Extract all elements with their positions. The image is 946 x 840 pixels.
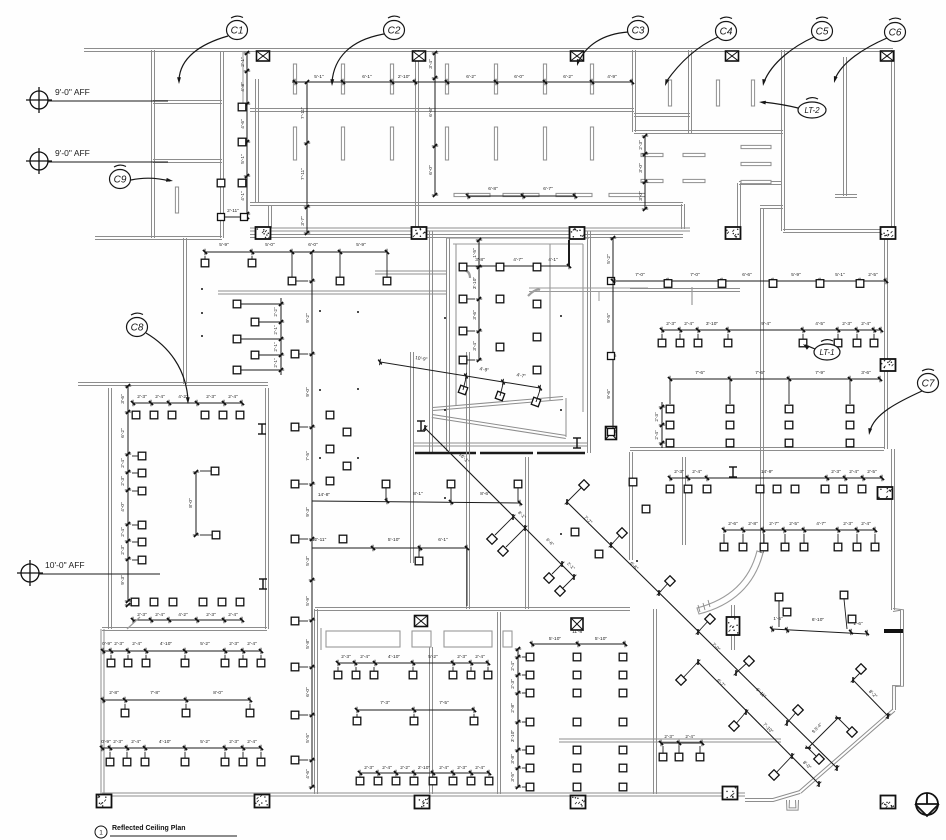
svg-text:2'-3": 2'-3" [206, 612, 216, 618]
svg-text:5'-1": 5'-1" [835, 272, 845, 278]
svg-text:2'-5": 2'-5" [789, 521, 799, 527]
dim chain vertical x307 7-11 [306, 82, 308, 233]
dim chain A y651 [103, 650, 261, 652]
svg-text:2'-2": 2'-2" [273, 307, 278, 317]
svg-text:6'-6": 6'-6" [428, 107, 434, 117]
svg-text:2'-4": 2'-4" [475, 765, 485, 771]
svg-text:3'-6": 3'-6" [861, 370, 871, 376]
corridor wall x431 [432, 231, 434, 452]
squares row A y663 [107, 659, 115, 667]
wall diagonal entry [801, 711, 895, 793]
svg-text:0'-9": 0'-9" [101, 739, 111, 745]
wall jog x739 [739, 181, 781, 183]
squares attached to central chain [291, 350, 299, 358]
svg-text:C4: C4 [720, 27, 733, 38]
wall C4 left x690 [691, 50, 693, 133]
heavy wall segment right [884, 629, 903, 633]
svg-text:5'-9": 5'-9" [305, 596, 311, 606]
svg-text:C7: C7 [922, 379, 935, 390]
dim chain C8 bottom y620 [133, 619, 242, 621]
wall chase x243 [242, 51, 244, 108]
callout C7 [918, 369, 939, 392]
svg-text:2'-4": 2'-4" [228, 612, 238, 618]
squares row F y781 [356, 777, 364, 785]
svg-text:4'-6": 4'-6" [305, 769, 311, 779]
wall left vertical x153 [154, 50, 156, 238]
svg-text:C1: C1 [231, 26, 244, 37]
svg-text:2'-3": 2'-3" [206, 394, 216, 400]
wall soffit x257 [258, 79, 260, 203]
wall bottom rooms top y609 [315, 607, 630, 609]
svg-text:2'-3": 2'-3" [843, 521, 853, 527]
svg-text:2'-4": 2'-4" [120, 527, 126, 537]
wall room divider y102 [153, 100, 222, 102]
leader C8 [146, 333, 188, 400]
wall y236 horizontal [250, 234, 683, 236]
L2 diamonds [567, 485, 584, 502]
left mini vertical x662 [661, 402, 663, 448]
linear light fixtures row1 [293, 64, 296, 94]
wall building bottom y794 [102, 792, 745, 794]
C8 interior 8-0 dim [195, 472, 197, 535]
leader C6 [835, 38, 887, 79]
svg-text:14'-8": 14'-8" [318, 492, 331, 498]
svg-text:3'-4": 3'-4" [428, 59, 434, 69]
squares above 14-8 [382, 480, 390, 488]
dim chain C y748 [102, 747, 261, 749]
svg-text:6'-0": 6'-0" [428, 165, 434, 175]
callout C4 [716, 17, 737, 40]
right vertical chain x518 [517, 649, 519, 787]
svg-text:3'-10": 3'-10" [472, 277, 478, 290]
svg-text:3'-7": 3'-7" [300, 216, 306, 226]
squares grid under chain3 [669, 379, 671, 404]
wall jog y207 [760, 205, 783, 207]
svg-text:4'-6": 4'-6" [240, 119, 246, 129]
leader C5 [764, 37, 814, 82]
squares row C y762 [106, 758, 114, 766]
callout C8 [127, 313, 148, 336]
svg-text:4'-8": 4'-8" [240, 82, 246, 92]
svg-text:7'-5": 7'-5" [439, 700, 449, 706]
dim chain vertical x435 [434, 53, 436, 195]
misc squares middle [326, 411, 334, 419]
stage heavy stub [568, 240, 570, 266]
wall C8 top y384 [78, 382, 268, 384]
svg-text:9'-6": 9'-6" [606, 389, 612, 399]
diagonal chain L3 parallel [698, 662, 819, 784]
millwork counters [326, 631, 400, 647]
squares row y489 [666, 485, 674, 493]
L1 branch diamonds [495, 517, 513, 535]
svg-text:5'-1": 5'-1" [240, 154, 246, 164]
svg-text:4'-0": 4'-0" [120, 502, 126, 512]
C8 squares top row [132, 411, 140, 419]
svg-text:9'-0" AFF: 9'-0" AFF [55, 148, 90, 158]
stage squares row1 [459, 263, 467, 271]
dim chain y252 [205, 251, 387, 253]
svg-text:4'-10": 4'-10" [159, 739, 172, 745]
L6 squares [775, 593, 783, 601]
long central vertical chain x312 [311, 252, 313, 787]
svg-text:2'-4": 2'-4" [228, 394, 238, 400]
svg-text:7'-3": 7'-3" [380, 700, 390, 706]
svg-text:2'-3": 2'-3" [666, 321, 676, 327]
svg-text:7'-8": 7'-8" [150, 690, 160, 696]
svg-text:3'-6": 3'-6" [120, 394, 126, 404]
columns mid [606, 427, 617, 440]
svg-text:8'-1": 8'-1" [413, 491, 423, 497]
C8 left vertical chain x128 [127, 386, 129, 601]
linear lights C3 area [641, 153, 663, 156]
elbow fittings [462, 270, 470, 278]
wall right lower jogs [893, 609, 904, 711]
wall C9 bottom y238 [95, 236, 222, 238]
svg-text:7'-0": 7'-0" [690, 272, 700, 278]
svg-text:2'-3": 2'-3" [137, 394, 147, 400]
svg-text:2'-4": 2'-4" [360, 654, 370, 660]
svg-text:2'-4": 2'-4" [654, 430, 659, 440]
north arrow symbol [915, 793, 939, 816]
svg-text:9'-0": 9'-0" [305, 387, 311, 397]
svg-text:2'-8": 2'-8" [109, 690, 119, 696]
svg-text:6'-1": 6'-1" [438, 537, 448, 543]
callout LT-1 [814, 340, 840, 360]
mini chain corridor y743 [661, 742, 702, 744]
svg-text:2'-3": 2'-3" [654, 412, 659, 422]
wall C6 bottom y231 [783, 229, 893, 231]
squares right of x518 chain [526, 653, 534, 661]
squares row E y721 [353, 717, 361, 725]
stage heavy line dashed [415, 452, 476, 455]
svg-text:2'-3": 2'-3" [137, 612, 147, 618]
callout LT-2 [798, 98, 826, 118]
svg-text:2'-10": 2'-10" [418, 765, 431, 771]
leader LT-1 [805, 345, 815, 349]
svg-text:2'-5": 2'-5" [867, 469, 877, 475]
svg-text:1'-6": 1'-6" [773, 616, 783, 621]
svg-text:2'-3": 2'-3" [831, 469, 841, 475]
svg-text:6'-1": 6'-1" [362, 74, 372, 80]
stage room outer walls [449, 238, 451, 451]
svg-text:2'-4": 2'-4" [155, 394, 165, 400]
svg-text:6'-0": 6'-0" [308, 242, 318, 248]
svg-text:3'-5": 3'-5" [510, 772, 516, 782]
svg-text:5'-8": 5'-8" [305, 639, 311, 649]
svg-text:2'-1": 2'-1" [240, 57, 246, 67]
svg-text:2'-3": 2'-3" [341, 654, 351, 660]
dim chain E y710 [357, 709, 474, 711]
steel beam symbols [258, 424, 266, 434]
dim chain1 y281 [613, 280, 886, 282]
wall vestibule bottom [745, 793, 800, 801]
svg-text:2'-4": 2'-4" [120, 458, 126, 468]
svg-text:9'-3": 9'-3" [305, 507, 311, 517]
corridor wall x527 [528, 457, 530, 609]
svg-text:C3: C3 [632, 26, 645, 37]
svg-text:5'-2": 5'-2" [200, 641, 210, 647]
svg-text:11'-8": 11'-8" [572, 629, 584, 635]
svg-text:6'-0": 6'-0" [514, 74, 524, 80]
C8 left squares column [138, 452, 146, 460]
svg-text:2'-1": 2'-1" [273, 342, 278, 352]
wall C6 interior L [846, 57, 848, 196]
svg-text:1'-5": 1'-5" [472, 248, 478, 258]
squares row y547 [720, 543, 728, 551]
svg-text:6'-7": 6'-7" [543, 186, 553, 192]
lone squares right [629, 478, 637, 486]
svg-text:2'-3": 2'-3" [229, 739, 239, 745]
wall y110 horizontal [250, 108, 634, 110]
dim diagonal 10-9 [380, 362, 540, 388]
squares row y343 [658, 339, 666, 347]
wall bottom-left room left x99 [103, 629, 105, 794]
wall bottom divider x499 [500, 612, 502, 794]
svg-text:2'-3": 2'-3" [842, 321, 852, 327]
dim chain3 y379 [670, 378, 880, 380]
svg-text:5'-9": 5'-9" [356, 242, 366, 248]
svg-text:2'-8": 2'-8" [510, 703, 516, 713]
svg-text:1: 1 [99, 830, 103, 837]
leader C9 [131, 178, 170, 181]
wall soffit y272 [375, 270, 446, 272]
callout C6 [885, 18, 906, 41]
diagonal chain L2 long [567, 502, 837, 768]
column grid top row [257, 51, 270, 61]
svg-text:2'-10": 2'-10" [398, 74, 411, 80]
chain L4 short [808, 718, 838, 748]
stage bottom wall y444 [413, 442, 588, 444]
vestibule notch [789, 800, 796, 808]
svg-text:9'-2": 9'-2" [305, 313, 311, 323]
svg-text:5'-9": 5'-9" [219, 242, 229, 248]
svg-text:9'-0" AFF: 9'-0" AFF [55, 87, 90, 97]
svg-text:2'-3": 2'-3" [510, 679, 516, 689]
svg-text:6'-2": 6'-2" [466, 74, 476, 80]
svg-text:7'-11": 7'-11" [300, 168, 306, 180]
squares under y252 chain [201, 259, 209, 267]
wall stub x270 [271, 205, 273, 228]
wall x417 vertical [418, 50, 420, 229]
title bubble [95, 826, 107, 838]
linear lights C4/C5 [668, 80, 671, 106]
svg-text:2'-4": 2'-4" [439, 765, 449, 771]
dim chain horizontal y82 [292, 81, 632, 83]
wall stub x733 [734, 605, 736, 650]
svg-text:5'-2": 5'-2" [200, 739, 210, 745]
dim chain2 y330 [662, 329, 881, 331]
svg-text:2'-3": 2'-3" [638, 140, 644, 150]
svg-text:5'-5": 5'-5" [305, 733, 311, 743]
fixture squares x240 column [238, 103, 246, 111]
svg-text:4'-10": 4'-10" [388, 654, 401, 660]
svg-text:2'-3": 2'-3" [229, 641, 239, 647]
svg-text:4'-10": 4'-10" [160, 641, 173, 647]
svg-text:2'-4": 2'-4" [155, 612, 165, 618]
dim chain vertical x645 [644, 136, 646, 209]
svg-text:5'-1": 5'-1" [314, 74, 324, 80]
columns bottom row [97, 795, 112, 808]
svg-text:C6: C6 [889, 28, 902, 39]
svg-text:4'-7": 4'-7" [816, 521, 826, 527]
svg-text:C9: C9 [114, 175, 127, 186]
svg-text:5'-10": 5'-10" [549, 636, 562, 642]
squares row B y713 [121, 709, 129, 717]
svg-text:2'-4": 2'-4" [685, 734, 695, 739]
svg-text:9'-3": 9'-3" [120, 575, 126, 585]
leader C1 [179, 36, 228, 80]
svg-text:4'-1": 4'-1" [240, 191, 246, 201]
dim chain stage vertical x479 [478, 240, 480, 360]
dim chain vertical x613 [612, 238, 614, 432]
svg-text:6'-0": 6'-0" [305, 687, 311, 697]
svg-text:7'-11": 7'-11" [300, 107, 306, 119]
svg-text:5'-3": 5'-3" [305, 556, 311, 566]
svg-text:LT-1: LT-1 [819, 348, 834, 357]
wall y132 horizontal [634, 130, 783, 132]
ceiling dots [201, 288, 203, 290]
wall x631 stub [632, 452, 634, 560]
stage wedge ramp [433, 397, 563, 408]
svg-text:2'-4": 2'-4" [861, 321, 871, 327]
svg-text:3'-4": 3'-4" [472, 341, 478, 351]
svg-text:2'-4": 2'-4" [692, 469, 702, 475]
svg-text:5'-9": 5'-9" [791, 272, 801, 278]
wall C8 right x267 [268, 388, 270, 629]
dim chain 14-8 y501 [312, 501, 520, 503]
svg-text:8'-0": 8'-0" [213, 690, 223, 696]
callout C9 [110, 165, 131, 188]
svg-text:5'-2": 5'-2" [428, 654, 438, 660]
svg-text:2'-1": 2'-1" [273, 358, 278, 368]
wall x762 vertical [763, 208, 765, 553]
svg-text:3'-0": 3'-0" [638, 191, 644, 201]
leader C7 [870, 391, 922, 431]
linear light fixtures row2 [293, 127, 296, 160]
wall bottom divider x431 [432, 647, 434, 794]
svg-text:C5: C5 [816, 27, 829, 38]
wall y229 horizontal [250, 227, 690, 229]
svg-text:2'-4": 2'-4" [132, 641, 142, 647]
callout C1 [227, 16, 248, 39]
wall band y740 [559, 738, 781, 740]
svg-text:7'-6": 7'-6" [755, 370, 765, 376]
wall x185 lower [186, 238, 188, 384]
dim 2-11 horizontal [221, 216, 247, 218]
svg-text:2'-3": 2'-3" [364, 765, 374, 771]
svg-text:6'-8": 6'-8" [488, 186, 498, 192]
linear light C9 room [175, 187, 178, 213]
svg-text:2'-4": 2'-4" [861, 521, 871, 527]
dim chain D y663 [338, 662, 488, 664]
svg-text:2'-4": 2'-4" [382, 765, 392, 771]
svg-text:2'-4": 2'-4" [475, 654, 485, 660]
svg-text:2'-4": 2'-4" [510, 661, 516, 671]
wall right x893 lower [894, 449, 896, 610]
svg-text:2'-3": 2'-3" [457, 765, 467, 771]
svg-text:2'-11": 2'-11" [227, 208, 239, 214]
svg-text:3'-8": 3'-8" [510, 754, 516, 764]
svg-text:2'-3": 2'-3" [114, 641, 124, 647]
squares row y283 [664, 280, 672, 288]
wall top exterior [84, 48, 893, 50]
svg-text:2'-2": 2'-2" [400, 765, 410, 771]
svg-text:2'-3": 2'-3" [457, 654, 467, 660]
datum symbol 10-0 AFF [17, 560, 43, 586]
dim chain vertical x247 [246, 53, 248, 214]
svg-text:3'-10": 3'-10" [706, 321, 719, 327]
leader C3 [579, 32, 628, 61]
column grid second row [256, 227, 271, 239]
dim chain B y700 [103, 699, 250, 701]
svg-text:4'-9": 4'-9" [607, 74, 617, 80]
wall right x886 mid [887, 231, 889, 449]
svg-text:2'-4": 2'-4" [247, 739, 257, 745]
stage diamonds [458, 385, 467, 394]
svg-text:2'-1": 2'-1" [273, 325, 278, 335]
svg-text:2'-3": 2'-3" [113, 739, 123, 745]
dim chain5 y530 [724, 529, 875, 531]
svg-text:5'-0": 5'-0" [265, 242, 275, 248]
wall C3 divider x634 [635, 50, 637, 132]
svg-text:2'-3": 2'-3" [120, 476, 126, 486]
wall x684 vertical [685, 457, 687, 545]
svg-text:5'-2": 5'-2" [606, 254, 612, 264]
svg-text:C2: C2 [388, 26, 401, 37]
wall C5 divider x783 [784, 50, 786, 231]
leader LT-2 [763, 102, 798, 108]
svg-text:5'-10": 5'-10" [595, 636, 608, 642]
svg-text:2'-4": 2'-4" [849, 469, 859, 475]
svg-text:2'-3": 2'-3" [674, 469, 684, 475]
svg-text:2'-7": 2'-7" [769, 521, 779, 527]
svg-text:7'-9": 7'-9" [815, 370, 825, 376]
svg-text:2'-4": 2'-4" [684, 321, 694, 327]
door swing [127, 617, 140, 629]
wall y204 horizontal [250, 202, 683, 204]
stage fixture squares [459, 295, 467, 303]
svg-text:7'-0": 7'-0" [635, 272, 645, 278]
svg-text:6'-2": 6'-2" [563, 74, 573, 80]
wall bottom-left room top y629 [102, 627, 267, 629]
chain L6 6-10 cluster [772, 629, 867, 634]
corridor S-curve wall [697, 551, 763, 614]
stage room inner lines [455, 244, 457, 406]
svg-text:2'-6": 2'-6" [728, 521, 738, 527]
svg-text:0'-9": 0'-9" [102, 641, 112, 647]
svg-text:4'-5": 4'-5" [815, 321, 825, 327]
datum symbol 9-0 AFF first [26, 87, 52, 113]
svg-text:6'-10": 6'-10" [812, 617, 825, 623]
corridor wall x412 [413, 352, 415, 563]
svg-text:8'-0": 8'-0" [188, 498, 194, 508]
svg-text:2'-3": 2'-3" [664, 734, 674, 739]
stage soffit y288 [529, 287, 648, 289]
dim chain F y773 [360, 772, 489, 774]
svg-text:2'-4": 2'-4" [247, 641, 257, 647]
left cluster squares with leaders [280, 298, 282, 375]
callout C5 [812, 17, 833, 40]
datum symbol 9-0 AFF second [26, 148, 52, 174]
linear light fixtures row3 horizontal [454, 193, 490, 196]
C8 bottom squares row [131, 598, 139, 606]
wall right exterior upper [894, 50, 896, 231]
leader C4 [666, 37, 718, 82]
wall room divider x222 [223, 52, 225, 238]
dim chain stage top y266 [463, 265, 569, 267]
svg-text:6'-6": 6'-6" [742, 272, 752, 278]
svg-text:4'-7": 4'-7" [513, 257, 523, 263]
